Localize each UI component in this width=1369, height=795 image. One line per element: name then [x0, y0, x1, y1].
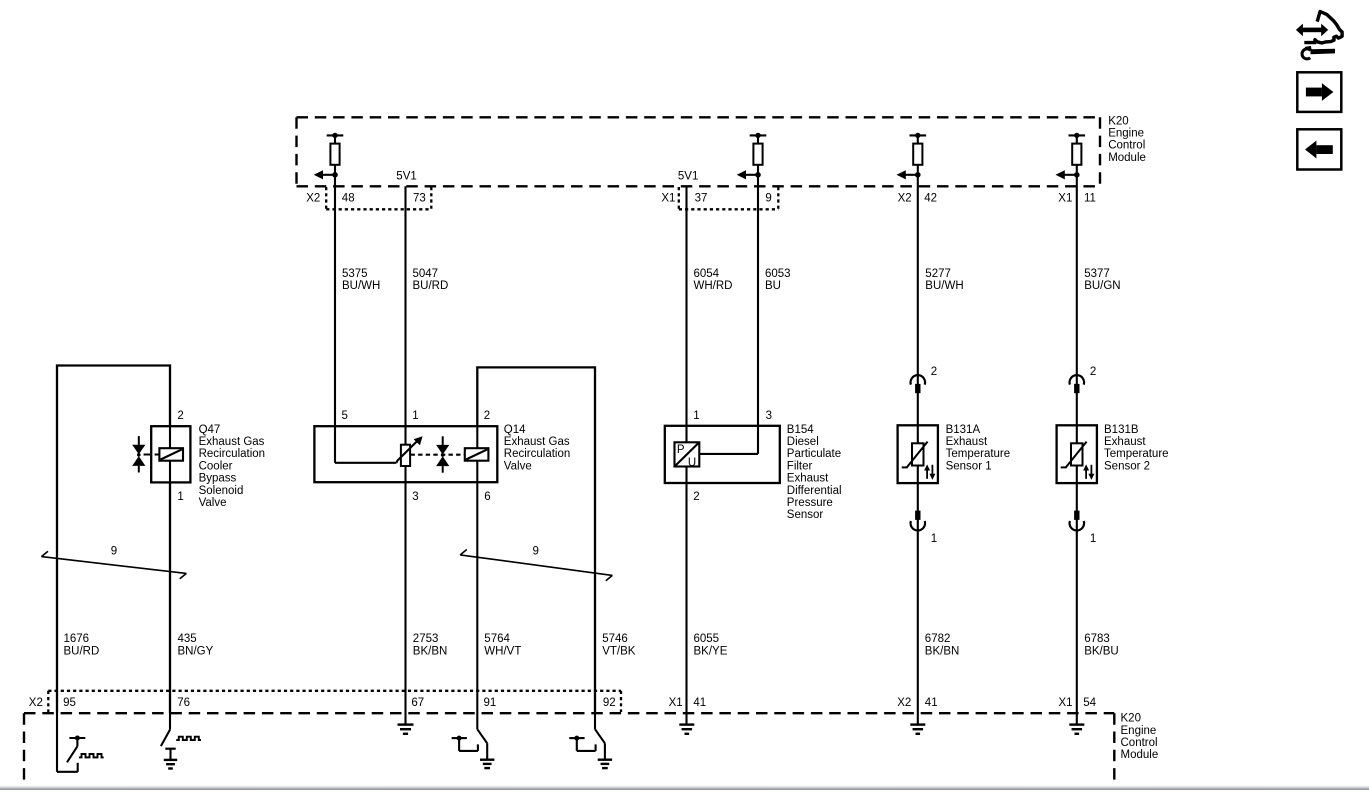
- svg-text:2: 2: [484, 410, 490, 422]
- net label 5V1 (right): [678, 170, 698, 182]
- Q47 valve symbol: [132, 436, 145, 472]
- svg-text:Diesel: Diesel: [787, 436, 819, 448]
- toolbar icon: next arrow button: [1297, 72, 1341, 112]
- Q14 sensor arrow: [396, 436, 422, 463]
- svg-text:BK/BU: BK/BU: [1084, 645, 1119, 657]
- svg-text:3: 3: [766, 410, 772, 422]
- wire label 5764 WH/VT: [484, 633, 521, 657]
- svg-text:5V1: 5V1: [396, 170, 416, 182]
- label Q14 Exhaust Gas Recirculation Valve: [504, 424, 570, 473]
- svg-text:Sensor 1: Sensor 1: [946, 460, 992, 472]
- svg-text:X2: X2: [29, 697, 43, 709]
- svg-text:2: 2: [693, 491, 699, 503]
- svg-text:1676: 1676: [64, 633, 90, 645]
- svg-text:Engine: Engine: [1121, 725, 1157, 737]
- wire 5377 BU/GN (X1-11 to B131B): [1076, 175, 1078, 713]
- svg-text:U: U: [688, 457, 696, 469]
- B154 pin label 2: [693, 491, 699, 503]
- wire loop Q47 pin2 to 1676 BU/RD: [57, 366, 170, 714]
- B131A thermistor: [902, 442, 936, 480]
- svg-text:Exhaust: Exhaust: [946, 436, 988, 448]
- label Q47 Exhaust Gas Recirculation Cooler Bypass Solenoid Valve: [199, 424, 265, 509]
- pin labels X1 37 9: [661, 192, 771, 204]
- svg-text:B131B: B131B: [1104, 424, 1139, 436]
- module K20 Engine Control Module (top dashed box): [297, 117, 1101, 186]
- svg-text:Sensor 2: Sensor 2: [1104, 460, 1150, 472]
- svg-text:5746: 5746: [602, 633, 628, 645]
- resistor (5V pull-up) at ECM pin X2-42: [897, 133, 927, 180]
- wire 6054 WH/RD (X1-37 to B154 pin1): [685, 186, 687, 713]
- svg-text:B154: B154: [787, 424, 814, 436]
- svg-text:5: 5: [342, 410, 348, 422]
- Q47 solenoid coil: [159, 448, 183, 461]
- svg-text:BK/BN: BK/BN: [925, 645, 960, 657]
- svg-text:Solenoid: Solenoid: [199, 485, 244, 497]
- bottom pin labels X2 41: [897, 697, 937, 709]
- wire label 6782 BK/BN: [925, 633, 960, 657]
- svg-text:Particulate: Particulate: [787, 448, 841, 460]
- svg-text:54: 54: [1083, 697, 1096, 709]
- svg-text:Exhaust Gas: Exhaust Gas: [504, 436, 570, 448]
- EGR valve Q14 box: [314, 426, 497, 482]
- svg-text:6054: 6054: [694, 268, 720, 280]
- svg-text:2: 2: [931, 366, 937, 378]
- wire label 5047 BU/RD: [413, 268, 449, 292]
- svg-text:41: 41: [693, 697, 706, 709]
- svg-text:Differential: Differential: [787, 485, 842, 497]
- svg-text:WH/VT: WH/VT: [484, 645, 521, 657]
- svg-text:73: 73: [413, 192, 426, 204]
- svg-text:1: 1: [412, 410, 418, 422]
- wire label 6053 BU: [765, 268, 791, 292]
- harness marker 9 (left): [41, 545, 186, 578]
- inline connector pin 1 (B131B): [1070, 511, 1097, 545]
- temp sensor B131A box: [898, 425, 938, 483]
- svg-text:BN/GY: BN/GY: [178, 645, 214, 657]
- wire 435 BN/GY (Q47 pin1 down): [169, 482, 171, 713]
- svg-text:X1: X1: [669, 697, 683, 709]
- svg-text:1: 1: [931, 533, 937, 545]
- Q47 dashed actuator link: [144, 453, 160, 455]
- svg-text:Temperature: Temperature: [946, 448, 1011, 460]
- Q14 internal wire pin6: [476, 461, 478, 483]
- svg-text:9: 9: [533, 545, 539, 557]
- switch to ground at pin 92: [569, 713, 612, 768]
- svg-text:BK/BN: BK/BN: [413, 645, 448, 657]
- svg-text:92: 92: [603, 697, 616, 709]
- svg-text:95: 95: [63, 697, 76, 709]
- inline connector pin 2 (B131A): [911, 366, 938, 393]
- svg-text:9: 9: [111, 545, 117, 557]
- svg-text:435: 435: [178, 633, 197, 645]
- svg-text:X2: X2: [897, 697, 911, 709]
- toolbar icon: diagnostic (arrows + outline + wrench): [1296, 12, 1342, 59]
- svg-text:5277: 5277: [925, 268, 951, 280]
- svg-text:5375: 5375: [342, 268, 368, 280]
- svg-text:Valve: Valve: [504, 460, 532, 472]
- svg-text:Recirculation: Recirculation: [199, 448, 265, 460]
- wire loop Q14 pin2 to 5746 VT/BK: [477, 367, 595, 713]
- wire 5375 BU/WH (X2-48 to Q14 pin5): [334, 175, 336, 426]
- svg-text:42: 42: [924, 192, 937, 204]
- wire 2753 BK/BN (Q14 pin3 to ECM 67): [404, 482, 406, 713]
- ground at ECM pin X1-41: [679, 713, 694, 734]
- svg-text:3: 3: [412, 491, 418, 503]
- svg-text:Q47: Q47: [199, 424, 221, 436]
- svg-text:2: 2: [1090, 366, 1096, 378]
- bottom pin labels X2 95 76 67 91 92: [29, 697, 616, 709]
- harness marker 9 (right): [460, 545, 612, 580]
- bottom pin labels X1 41: [669, 697, 707, 709]
- connector X1 (pins 37,9) dotted box: [679, 187, 779, 209]
- bottom pin labels X1 54: [1059, 697, 1097, 709]
- svg-text:1: 1: [693, 410, 699, 422]
- svg-text:Cooler: Cooler: [199, 460, 233, 472]
- svg-text:X2: X2: [306, 192, 320, 204]
- pin labels X2 48 73: [306, 192, 426, 204]
- svg-text:6783: 6783: [1084, 633, 1110, 645]
- wire 5764 WH/VT (Q14 pin6 to ECM 91): [476, 482, 478, 713]
- svg-text:BU/GN: BU/GN: [1084, 280, 1120, 292]
- wire label 1676 BU/RD: [64, 633, 100, 657]
- label B154 Diesel Particulate Filter Exhaust Differential Pressure Sensor: [787, 424, 842, 521]
- svg-text:5047: 5047: [413, 268, 439, 280]
- resistor (5V pull-up) at ECM pin X2-48: [314, 133, 344, 180]
- svg-text:37: 37: [695, 192, 708, 204]
- Q14 solenoid coil: [465, 448, 489, 461]
- svg-text:Filter: Filter: [787, 460, 813, 472]
- svg-text:Exhaust: Exhaust: [1104, 436, 1146, 448]
- wire label 5277 BU/WH: [925, 268, 963, 292]
- svg-text:Exhaust: Exhaust: [787, 473, 829, 485]
- B154 pin labels 1 3: [693, 410, 772, 422]
- svg-text:6055: 6055: [694, 633, 720, 645]
- svg-text:Recirculation: Recirculation: [504, 448, 570, 460]
- svg-text:WH/RD: WH/RD: [694, 280, 733, 292]
- solenoid valve Q47 box: [151, 426, 190, 482]
- Q14 pin labels 3 6: [412, 491, 490, 503]
- wire label 5746 VT/BK: [602, 633, 636, 657]
- Q14 position sensor (variable resistor): [401, 445, 410, 466]
- svg-text:BK/YE: BK/YE: [694, 645, 728, 657]
- Q47 pin label 2: [177, 410, 183, 422]
- svg-text:P: P: [677, 444, 685, 456]
- svg-text:Bypass: Bypass: [199, 473, 237, 485]
- connector X2 dotted strip (bottom): [48, 691, 621, 712]
- svg-text:48: 48: [342, 192, 355, 204]
- svg-text:5V1: 5V1: [678, 170, 698, 182]
- B131B thermistor: [1061, 442, 1095, 480]
- svg-text:5377: 5377: [1084, 268, 1110, 280]
- toolbar icon: back arrow button: [1297, 129, 1341, 169]
- Q14 internal wire pin3: [404, 466, 406, 482]
- svg-text:2: 2: [177, 410, 183, 422]
- module K20 bottom dashed box: [24, 713, 1114, 786]
- Q14 dashed actuator link: [411, 454, 465, 456]
- svg-text:Pressure: Pressure: [787, 497, 833, 509]
- svg-text:X1: X1: [1059, 697, 1073, 709]
- svg-text:Control: Control: [1108, 140, 1145, 152]
- svg-text:6: 6: [484, 491, 490, 503]
- svg-text:X2: X2: [898, 192, 912, 204]
- label K20 Engine Control Module (bottom): [1121, 713, 1159, 762]
- pin labels X2 42: [898, 192, 937, 204]
- switch with thermal element and ground at pin 76: [161, 713, 201, 769]
- svg-text:67: 67: [411, 697, 424, 709]
- svg-text:Control: Control: [1121, 737, 1158, 749]
- svg-text:Sensor: Sensor: [787, 509, 824, 521]
- svg-text:Module: Module: [1121, 749, 1159, 761]
- svg-text:Valve: Valve: [199, 497, 227, 509]
- svg-text:11: 11: [1084, 192, 1096, 204]
- svg-text:Engine: Engine: [1108, 128, 1144, 140]
- Q47 internal wire pin2: [169, 426, 171, 448]
- temp sensor B131B box: [1057, 425, 1097, 483]
- svg-text:VT/BK: VT/BK: [602, 645, 636, 657]
- wire label 6055 BK/YE: [694, 633, 728, 657]
- svg-text:9: 9: [765, 192, 771, 204]
- B154 internal wire to pin3: [699, 453, 758, 455]
- switch with thermal element at pin 95: [57, 713, 104, 772]
- inline connector pin 2 (B131B): [1070, 366, 1097, 393]
- svg-text:BU: BU: [765, 280, 781, 292]
- svg-text:6053: 6053: [765, 268, 791, 280]
- ground at ECM pin X2-41: [910, 713, 925, 734]
- Q47 internal wire pin1: [169, 461, 171, 483]
- Q14 valve symbol: [436, 436, 449, 472]
- wire label 5375 BU/WH: [342, 268, 380, 292]
- wire label 435 BN/GY: [178, 633, 214, 657]
- label B131A Exhaust Temperature Sensor 1: [946, 424, 1011, 473]
- net label 5V1 (left): [396, 170, 416, 182]
- svg-text:X1: X1: [661, 192, 675, 204]
- wire 6053 BU (pin9 to B154 pin3): [757, 175, 759, 454]
- Q14 pin labels 5 1 2: [342, 410, 491, 422]
- Q14 internal wire pin1: [404, 426, 406, 445]
- svg-text:41: 41: [925, 697, 938, 709]
- resistor (5V pull-up) at ECM pin X1-11: [1056, 133, 1086, 180]
- wire 5277 BU/WH (X2-42 to B131A): [917, 175, 919, 713]
- svg-text:K20: K20: [1121, 713, 1141, 725]
- svg-text:76: 76: [177, 697, 190, 709]
- svg-text:Exhaust Gas: Exhaust Gas: [199, 436, 265, 448]
- wire label 2753 BK/BN: [413, 633, 448, 657]
- pressure sensor B154 box: [665, 426, 780, 483]
- svg-text:X1: X1: [1058, 192, 1072, 204]
- svg-text:Module: Module: [1108, 152, 1146, 164]
- svg-text:Temperature: Temperature: [1104, 448, 1169, 460]
- wire label 6783 BK/BU: [1084, 633, 1119, 657]
- svg-text:B131A: B131A: [946, 424, 981, 436]
- svg-text:2753: 2753: [413, 633, 439, 645]
- Q14 internal wire pin5: [335, 426, 396, 463]
- label K20 Engine Control Module (top): [1108, 115, 1146, 164]
- window bottom edge bar: [0, 786, 1369, 790]
- Q14 internal wire pin2: [476, 426, 478, 448]
- label B131B Exhaust Temperature Sensor 2: [1104, 424, 1169, 473]
- ground at ECM pin X1-54: [1069, 713, 1084, 734]
- svg-text:BU/WH: BU/WH: [925, 280, 963, 292]
- svg-text:K20: K20: [1108, 115, 1128, 127]
- B154 P/U transducer square: [675, 442, 700, 469]
- Q47 pin label 1: [177, 491, 183, 503]
- ground at ECM pin 67: [398, 713, 414, 734]
- resistor (5V pull-up) at ECM pin 9: [737, 133, 767, 180]
- switch to ground at pin 91: [452, 713, 495, 768]
- svg-text:6782: 6782: [925, 633, 951, 645]
- connector X2 (pins 48,73) dotted box: [326, 187, 431, 209]
- svg-text:BU/WH: BU/WH: [342, 280, 380, 292]
- wire label 5377 BU/GN: [1084, 268, 1120, 292]
- wire label 6054 WH/RD: [694, 268, 733, 292]
- svg-text:1: 1: [177, 491, 183, 503]
- svg-text:1: 1: [1090, 533, 1096, 545]
- pin labels X1 11: [1058, 192, 1096, 204]
- inline connector pin 1 (B131A): [911, 511, 938, 545]
- svg-text:91: 91: [484, 697, 497, 709]
- wire 5047 BU/RD (X2-73 to Q14 pin1): [404, 186, 406, 426]
- svg-text:BU/RD: BU/RD: [413, 280, 449, 292]
- svg-text:BU/RD: BU/RD: [64, 645, 100, 657]
- svg-text:5764: 5764: [484, 633, 510, 645]
- svg-text:Q14: Q14: [504, 424, 526, 436]
